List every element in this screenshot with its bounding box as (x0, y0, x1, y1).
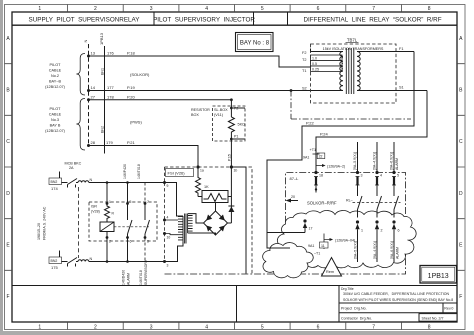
svg-text:BOX: BOX (191, 113, 199, 117)
bay number box (236, 33, 274, 52)
svg-text:13: 13 (91, 51, 96, 56)
svg-text:2A: 2A (69, 166, 74, 170)
svg-text:ISR: ISR (91, 205, 97, 209)
svg-text:8: 8 (428, 6, 431, 12)
svg-text:(SOLKOR): (SOLKOR) (130, 72, 150, 77)
sheet divider line above title block (12, 285, 457, 287)
fuse link 3 (356, 177, 360, 186)
contact ISR-2 (145, 204, 150, 238)
node 7 (144, 202, 147, 205)
primary feed F2 (311, 49, 344, 52)
svg-text:146/T018: 146/T018 (139, 270, 143, 285)
svg-text:9: 9 (167, 184, 169, 188)
svg-text:1: 1 (38, 325, 41, 331)
bridge diode 4 (219, 226, 225, 232)
svg-text:7: 7 (372, 325, 375, 331)
svg-text:5: 5 (397, 174, 399, 178)
svg-text:[9A–5.9(X)]: [9A–5.9(X)] (353, 152, 357, 170)
transformer dashed enclosure (311, 44, 397, 103)
svg-text:146/P420: 146/P420 (123, 164, 127, 179)
svg-text:10: 10 (167, 236, 171, 240)
svg-text:D: D (6, 191, 10, 197)
primary return S2 (311, 90, 344, 92)
svg-text:T2: T2 (302, 58, 306, 62)
svg-text:4: 4 (205, 6, 208, 12)
tap box 1.0 (311, 55, 343, 61)
terminal 17 arrow (303, 219, 306, 222)
svg-text:RL–: RL– (346, 198, 353, 202)
svg-text:[9A–6.9(X)]: [9A–6.9(X)] (390, 241, 394, 259)
svg-text:15kV ISOLATION TRANSFORMERS: 15kV ISOLATION TRANSFORMERS (323, 47, 384, 51)
svg-text:4: 4 (380, 174, 382, 178)
node 3a (356, 171, 359, 174)
cloud terminal 1 (356, 220, 359, 223)
contact RL 3 (394, 196, 399, 218)
svg-text:178: 178 (107, 94, 114, 99)
svg-text:18: 18 (319, 174, 323, 178)
svg-text:1b: 1b (234, 169, 238, 173)
contact ISR-1 (128, 204, 133, 238)
terminal 11 assembly (323, 234, 325, 250)
FSI transformer secondary (188, 214, 193, 233)
svg-text:146/D420: 146/D420 (122, 270, 126, 285)
svg-text:PILOT: PILOT (50, 63, 62, 67)
svg-text:3: 3 (150, 325, 153, 331)
terminal 20 arrow (286, 199, 292, 203)
svg-text:Sheet No. 2/7: Sheet No. 2/7 (422, 316, 444, 320)
node 18 (314, 171, 317, 174)
dashed enclosure SL.BOX (V11) (213, 106, 246, 141)
wire node9 to mains transformer (165, 183, 184, 217)
svg-text:176: 176 (107, 51, 114, 56)
branch wire middle (127, 183, 129, 204)
svg-text:P1: P1 (234, 135, 238, 139)
svg-text:17: 17 (309, 227, 313, 231)
reference arrow (12B/9A-2) (316, 160, 322, 166)
svg-text:S2: S2 (302, 87, 307, 91)
svg-text:0.5: 0.5 (312, 62, 317, 66)
choke neutral (78, 260, 89, 262)
wire S1 (357, 90, 427, 92)
svg-text:28: 28 (91, 140, 96, 145)
grid numbers top (38, 6, 430, 12)
svg-text:6: 6 (317, 325, 320, 331)
svg-text:27: 27 (91, 94, 96, 99)
wire 1b to output terminal (231, 167, 246, 274)
node 9 (163, 181, 166, 184)
svg-text:6: 6 (398, 229, 400, 233)
svg-text:[9A–4.9(X)]: [9A–4.9(X)] (373, 152, 377, 170)
svg-text:7: 7 (372, 6, 375, 12)
svg-text:C: C (6, 139, 10, 145)
svg-text:6: 6 (317, 6, 320, 12)
svg-text:6: 6 (130, 240, 132, 244)
resistor R (105, 204, 110, 223)
svg-text:(12B/9A–04): (12B/9A–04) (335, 239, 355, 243)
fuse link 18 (314, 177, 318, 186)
svg-text:–T1: –T1 (314, 252, 320, 256)
svg-text:1: 1 (361, 229, 363, 233)
svg-text:175: 175 (51, 265, 58, 270)
svg-text:BAY No : 8: BAY No : 8 (240, 41, 270, 47)
svg-text:(V11): (V11) (214, 113, 224, 117)
resistor 5K ohm (228, 117, 234, 139)
svg-text:+T1: +T1 (310, 148, 317, 152)
chain boundary below transformer (291, 91, 411, 120)
varistor leads (198, 196, 231, 198)
wire P.21 (89, 146, 199, 168)
svg-text:2: 2 (381, 229, 383, 233)
centre fold line bottom (236, 286, 238, 323)
svg-text:ALARM: ALARM (395, 247, 399, 259)
svg-text:22: 22 (319, 155, 323, 159)
svg-text:[9A–4.9(X)]: [9A–4.9(X)] (373, 241, 377, 259)
node 5a (392, 171, 395, 174)
wire AC neutral (60, 251, 79, 262)
svg-text:146/T018: 146/T018 (137, 164, 141, 179)
bridge DC+ stub (215, 203, 217, 212)
title block texts (341, 287, 453, 320)
label BN2 175 (49, 257, 62, 264)
node 4a (375, 171, 378, 174)
svg-text:P.20: P.20 (127, 94, 135, 99)
svg-text:No.3: No.3 (51, 118, 59, 122)
svg-text:87–L: 87–L (290, 176, 300, 181)
grid letters left (6, 36, 10, 300)
svg-text:20: 20 (291, 195, 295, 199)
FSI transformer core (185, 214, 186, 244)
wire S1 to P.24 (316, 91, 427, 174)
svg-text:1K: 1K (204, 185, 209, 189)
MCB contact live (68, 179, 78, 188)
node S2 junction (290, 89, 293, 92)
node 13 (87, 55, 90, 58)
svg-text:P.22: P.22 (306, 120, 314, 125)
svg-text:C: C (459, 139, 463, 145)
cloud boundary of solkor relay (277, 211, 416, 268)
svg-text:N: N (90, 178, 93, 182)
wire P.20 (89, 99, 232, 101)
svg-text:PILOT SUPERVISORY INJECTOR: PILOT SUPERVISORY INJECTOR (153, 16, 255, 23)
contact RL 2 (377, 196, 382, 218)
earth reference triangle Rem (322, 258, 342, 277)
svg-text:Drg.Title: Drg.Title (341, 287, 354, 291)
svg-text:1: 1 (38, 6, 41, 12)
svg-text:300kV U/G CABLE FEEDER, DI: 300kV U/G CABLE FEEDER, DIFFERENTIAL LIN… (343, 292, 450, 296)
node 10 (163, 232, 166, 235)
margin tick marks bottom (68, 322, 402, 330)
branch wire left (106, 183, 108, 204)
cloud lower-left lobe (263, 243, 314, 278)
diode D1 (228, 167, 232, 223)
svg-text:[9A–5.9(X)]: [9A–5.9(X)] (353, 241, 357, 259)
svg-text:FSI (V26): FSI (V26) (168, 171, 186, 176)
svg-text:ALARM: ALARM (127, 273, 131, 285)
svg-text:4: 4 (167, 216, 169, 220)
svg-text:3: 3 (361, 174, 363, 178)
node P1 (230, 138, 233, 141)
primary winding (340, 52, 343, 91)
title block (339, 286, 457, 323)
svg-text:ALARM: ALARM (395, 158, 399, 170)
title band (12, 12, 457, 25)
contact RL 1 (358, 196, 363, 218)
tap stubs (342, 58, 343, 69)
margin tick marks top (68, 5, 402, 13)
title band text 1 (29, 16, 442, 23)
svg-text:F: F (459, 294, 462, 300)
svg-text:(12B/12.07): (12B/12.07) (45, 129, 66, 133)
svg-text:SOLKOR WITH PILOT WIRES SU: SOLKOR WITH PILOT WIRES SUPERVISION (SEN… (343, 298, 453, 302)
svg-text:MCB BKC: MCB BKC (65, 162, 82, 166)
svg-text:BAY–B: BAY–B (49, 80, 61, 84)
svg-text:BN2: BN2 (100, 126, 104, 133)
svg-text:Rev.0: Rev.0 (444, 306, 453, 310)
FSI dashed enclosure (165, 167, 253, 274)
svg-text:P2: P2 (234, 107, 238, 111)
svg-text:8: 8 (147, 240, 149, 244)
svg-text:SOLKOR–R/RF: SOLKOR–R/RF (307, 201, 337, 206)
relay coil ISR (100, 222, 114, 232)
grid numbers bottom (38, 325, 430, 331)
diode bridge (204, 211, 228, 235)
svg-text:(12B/9A–2): (12B/9A–2) (327, 164, 345, 168)
wire AC live (60, 172, 79, 183)
label BN2 174 (49, 178, 62, 185)
svg-text:3: 3 (167, 264, 169, 268)
svg-text:Rem: Rem (326, 270, 334, 274)
brace pilot cable No.2 (76, 54, 85, 96)
svg-text:P.19: P.19 (127, 85, 135, 90)
node 1 (106, 202, 109, 205)
node 1b (230, 165, 233, 168)
grid letters right (459, 36, 463, 300)
node 27 (87, 98, 90, 101)
tap wire 10 (165, 234, 179, 235)
svg-text:9A1: 9A1 (303, 156, 309, 160)
drawing number box 1PB13 (420, 266, 457, 284)
tap box 0.25 (311, 66, 343, 72)
svg-text:(12B/12.07): (12B/12.07) (45, 85, 66, 89)
svg-text:S1: S1 (399, 86, 404, 90)
svg-text:2: 2 (94, 325, 97, 331)
label pilot cable No.3 (45, 107, 66, 133)
choke live (78, 181, 89, 183)
secondary to bridge AC2 (188, 233, 216, 235)
svg-text:BN2: BN2 (51, 180, 58, 184)
wire F1 to P.22 staircase (267, 52, 414, 249)
svg-text:Contractor Drg.No.: Contractor Drg.No. (341, 316, 372, 320)
svg-text:D: D (459, 191, 463, 197)
svg-text:(PWS): (PWS) (130, 120, 142, 125)
wire F1 (357, 51, 414, 53)
svg-text:P.24: P.24 (320, 131, 328, 136)
svg-text:1PB13: 1PB13 (428, 273, 449, 280)
sheet number cell (419, 314, 457, 322)
resistor 1K (196, 167, 201, 197)
svg-text:F1: F1 (399, 47, 403, 51)
node 6 (126, 236, 129, 239)
fuse link 4 (375, 177, 379, 186)
varistor box (202, 191, 228, 203)
svg-text:(V28): (V28) (91, 210, 100, 214)
wire P.18 (89, 56, 311, 67)
node P2 (230, 100, 232, 117)
svg-text:CABLE: CABLE (49, 69, 62, 73)
label pilot cable No.2 (45, 63, 66, 89)
svg-text:BAY B: BAY B (50, 124, 61, 128)
margin tick marks left (5, 64, 13, 271)
wire 3 to transformer bottom (165, 242, 184, 262)
fuse link 5 (392, 177, 396, 186)
svg-text:1.0: 1.0 (312, 57, 317, 61)
MCB contact neutral (68, 258, 78, 267)
scan edge shading bottom (0, 331, 474, 335)
svg-text:5: 5 (261, 6, 264, 12)
relay linkage dashed (114, 226, 149, 228)
wire P.15 down to FSI (230, 139, 232, 167)
svg-text:14: 14 (91, 85, 96, 90)
bridge diode 1 (206, 215, 212, 221)
label FSI (V26) (166, 169, 194, 177)
svg-text:1a: 1a (200, 169, 204, 173)
svg-text:0.25: 0.25 (312, 68, 319, 72)
ISR dashed enclosure (89, 202, 157, 241)
secondary to bridge AC1 (188, 214, 204, 223)
svg-text:3: 3 (150, 6, 153, 12)
panel boundary dashed (78, 187, 80, 258)
wire P.19 (89, 90, 311, 92)
svg-text:DIFFERENTIAL LINE RELAY “SO: DIFFERENTIAL LINE RELAY “SOLKOR” R/RF (303, 16, 441, 23)
svg-text:SUPERVISORY: SUPERVISORY (144, 259, 148, 285)
FSI transformer primary (178, 216, 183, 242)
svg-text:P.15: P.15 (227, 154, 231, 161)
svg-text:F: F (6, 294, 9, 300)
boundary line N (dashed) (88, 44, 90, 146)
tap wire 4 (165, 219, 179, 221)
node 8 (144, 236, 147, 239)
svg-text:PILOT: PILOT (50, 107, 62, 111)
node 28 (87, 144, 90, 147)
cloud terminal 6 (392, 220, 395, 223)
svg-text:FROM A.S. 240V AC: FROM A.S. 240V AC (43, 206, 47, 240)
svg-text:T1: T1 (302, 69, 306, 73)
branch wire right dashed (144, 183, 146, 204)
svg-text:[9A–6.9(X)]: [9A–6.9(X)] (390, 152, 394, 170)
boundary line 1PB13 (104, 46, 106, 154)
svg-text:BN1: BN1 (100, 68, 104, 75)
svg-text:11: 11 (321, 244, 325, 248)
svg-text:2: 2 (94, 6, 97, 12)
svg-text:1PB13: 1PB13 (99, 32, 104, 45)
svg-text:177: 177 (107, 85, 114, 90)
svg-text:SL.BOX: SL.BOX (214, 108, 228, 112)
svg-text:7: 7 (147, 200, 149, 204)
transformer core (346, 48, 354, 94)
svg-text:RESISTOR: RESISTOR (191, 108, 210, 112)
chain enclosure 87-L (165, 173, 406, 275)
node 2 (106, 236, 109, 239)
svg-text:No.2: No.2 (51, 74, 59, 78)
secondary winding (357, 52, 360, 91)
svg-text:8: 8 (428, 325, 431, 331)
svg-text:TB7L: TB7L (347, 38, 358, 43)
svg-text:N: N (90, 257, 93, 261)
svg-text:5KΩ: 5KΩ (238, 123, 246, 127)
svg-text:P.21: P.21 (127, 140, 135, 145)
bridge diode 3 (206, 226, 212, 232)
brace pilot cable No.3 (76, 99, 85, 151)
bridge diode 2 (219, 215, 225, 221)
node 5 (126, 202, 129, 205)
node 14 (87, 89, 90, 92)
svg-text:SUPPLY PILOT SUPERVISONRELAY: SUPPLY PILOT SUPERVISONRELAY (29, 16, 141, 23)
node 4 (163, 219, 166, 222)
node 3 (163, 260, 166, 263)
svg-text:P.18: P.18 (127, 51, 135, 56)
margin tick marks right (457, 64, 465, 271)
node 1a (196, 165, 199, 168)
svg-text:N: N (83, 40, 88, 43)
svg-text:198/15–20: 198/15–20 (37, 223, 41, 240)
scan edge shading left (0, 0, 3, 335)
svg-text:F2: F2 (302, 51, 306, 55)
svg-text:2: 2 (109, 240, 111, 244)
cloud terminal 2 (375, 220, 378, 223)
svg-text:179: 179 (106, 140, 113, 145)
svg-text:4: 4 (205, 325, 208, 331)
label ISR (V28) (90, 203, 102, 214)
branch wire to terminal 17 (267, 227, 305, 233)
svg-text:BN2: BN2 (51, 259, 58, 263)
svg-text:5: 5 (130, 200, 132, 204)
tap box 0.5 (311, 61, 343, 67)
svg-text:CABLE: CABLE (49, 113, 62, 117)
svg-text:174: 174 (51, 186, 58, 191)
svg-text:9A1: 9A1 (308, 244, 314, 248)
svg-text:Project Drg.No.: Project Drg.No. (341, 306, 367, 310)
svg-text:5: 5 (261, 325, 264, 331)
